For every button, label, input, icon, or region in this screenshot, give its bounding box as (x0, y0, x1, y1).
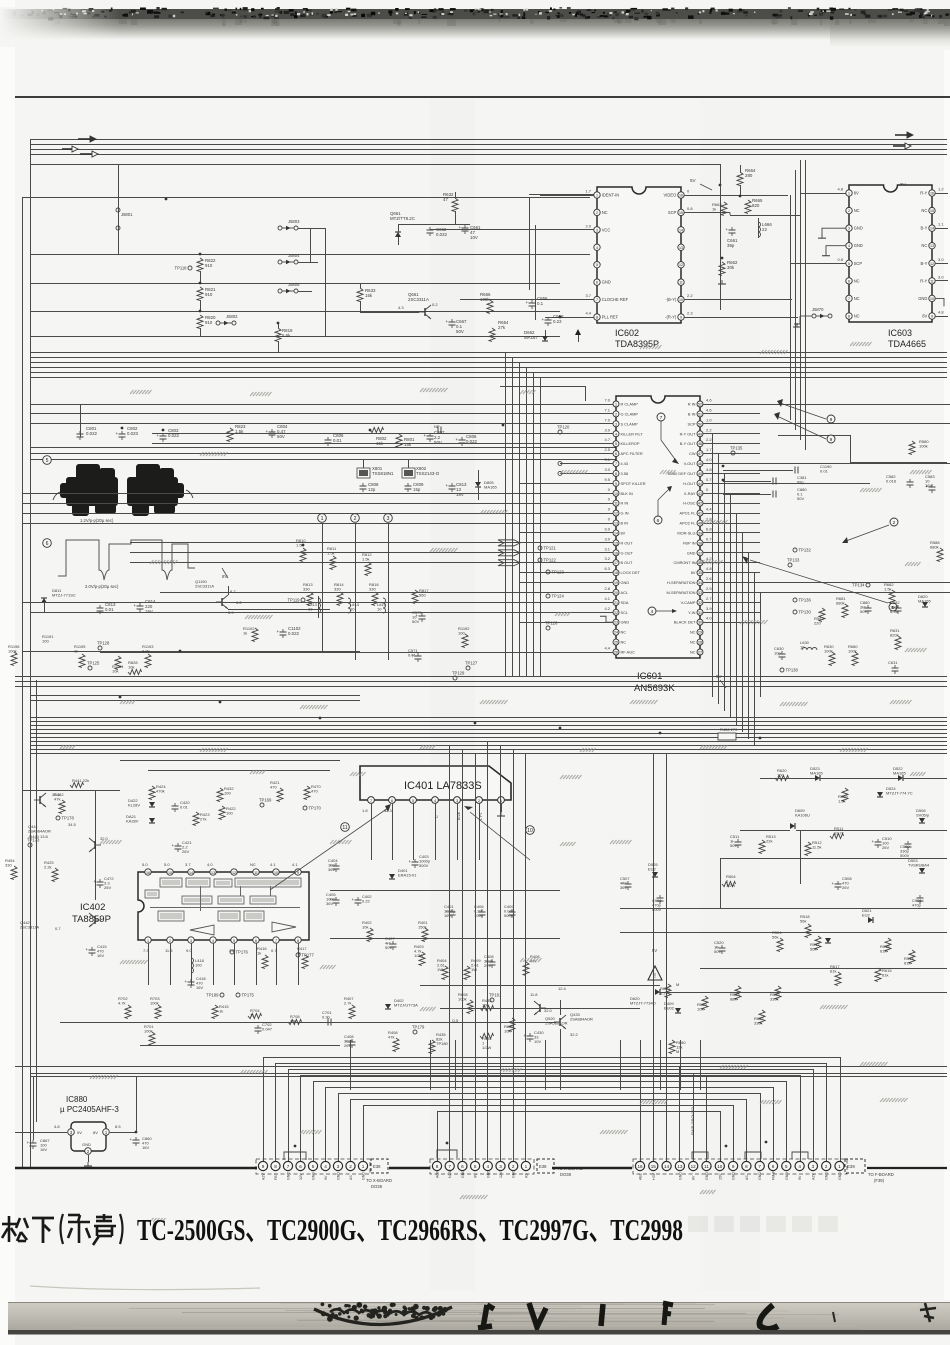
handwriting mark F (663, 1303, 673, 1325)
wire left chain (95, 790, 97, 900)
bus bundle C upper (15, 676, 947, 678)
svg-text:42: 42 (698, 502, 702, 506)
inductor L815 (383, 598, 386, 613)
resistor R633 15k (357, 288, 363, 302)
svg-text:H-OUT: H-OUT (683, 481, 696, 486)
circled node 10 (526, 826, 535, 835)
svg-text:43: 43 (698, 492, 702, 496)
svg-text:7: 7 (448, 1164, 451, 1169)
svg-text:470: 470 (270, 785, 277, 790)
resistor R812 1.5k (365, 562, 371, 576)
inductor L666 22 (758, 218, 760, 238)
resistor R822 910 (199, 253, 202, 256)
left bus vertical (30, 139, 32, 1167)
circled node 2 (351, 514, 360, 523)
svg-text:B-Y OUT: B-Y OUT (680, 441, 696, 446)
svg-text:TVSRUBA4: TVSRUBA4 (908, 863, 930, 868)
svg-text:TP126: TP126 (545, 621, 558, 626)
svg-text:52: 52 (698, 403, 702, 407)
IC402 pin 5 (231, 937, 237, 943)
resistor R703 100k (155, 1005, 161, 1019)
wire stubs (310, 228, 312, 262)
svg-text:5: 5 (412, 799, 414, 803)
resistor R417 1k (302, 955, 308, 969)
svg-text:V-CAMP: V-CAMP (681, 600, 696, 605)
connector row 2 (TO X-BOARD) (432, 1161, 441, 1170)
5V rail label (720, 164, 722, 185)
capacitor C802 0.023 (119, 433, 126, 435)
svg-text:49: 49 (698, 432, 702, 436)
svg-text:2SC3311A: 2SC3311A (20, 925, 39, 930)
crystal X801 TSS818N1 (359, 470, 368, 476)
svg-text:GND: GND (918, 296, 927, 301)
svg-text:ERA15-01: ERA15-01 (398, 873, 417, 878)
svg-text:470p: 470p (912, 903, 922, 908)
test point TP128 (98, 646, 102, 650)
svg-text:M: M (676, 982, 679, 987)
svg-text:TSS818N1: TSS818N1 (372, 471, 394, 476)
svg-text:0.7: 0.7 (706, 477, 712, 482)
svg-text:4.8: 4.8 (706, 467, 712, 472)
IC603 TDA4665 pin 7 (846, 295, 852, 301)
IC601 AN5693K pin 27 (697, 649, 703, 655)
resistor R524 (777, 938, 783, 952)
svg-text:10: 10 (274, 871, 278, 875)
op-amp IC602 TDA8395P pin 8 (594, 314, 600, 320)
svg-text:GND: GND (362, 1172, 366, 1180)
svg-text:GND: GND (512, 1170, 516, 1178)
svg-text:21: 21 (614, 601, 618, 605)
svg-text:500V: 500V (652, 907, 662, 912)
resistor R523 88k (735, 986, 741, 1000)
svg-text:TP178: TP178 (62, 816, 75, 821)
svg-text:1/2W: 1/2W (482, 1045, 492, 1050)
svg-text:L P1: L P1 (479, 812, 483, 820)
IC402 op-amp triangles (190, 925, 214, 935)
svg-text:1: 1 (525, 1164, 528, 1169)
svg-text:14: 14 (664, 1164, 670, 1169)
svg-text:1.5k: 1.5k (296, 543, 304, 548)
capacitor C402 0.22 (355, 899, 362, 901)
svg-text:DO38: DO38 (371, 1184, 383, 1189)
svg-text:NC: NC (854, 208, 860, 213)
diode D505 EU2 (652, 872, 658, 877)
svg-text:5V: 5V (77, 1130, 82, 1135)
IC601 AN5693K pin 49 (697, 431, 703, 437)
svg-text:GND: GND (854, 243, 863, 248)
svg-text:3.0: 3.0 (604, 536, 610, 541)
svg-text:DO38: DO38 (560, 1172, 572, 1177)
capacitor C506 470 26V (835, 883, 842, 885)
IC601 AN5693K pin 31 (697, 609, 703, 615)
svg-text:J5805: J5805 (288, 282, 300, 287)
svg-text:100: 100 (195, 963, 202, 968)
diode D523 MA165 (815, 775, 820, 781)
wires IC603 right pins (935, 193, 948, 195)
resistor R680 100k (852, 652, 858, 666)
IC601 AN5693K pin 37 (697, 550, 703, 556)
svg-text:TP129: TP129 (452, 671, 465, 676)
capacitor C520 10 50V (719, 947, 726, 949)
svg-text:3.7: 3.7 (185, 862, 191, 867)
jumper J5802 (216, 321, 220, 325)
IC402 pin 14 (188, 869, 194, 875)
svg-text:4: 4 (487, 1164, 490, 1169)
circled number 5 (43, 456, 52, 465)
svg-text:EU2: EU2 (862, 913, 871, 918)
IC601 AN5693K pin 21 (613, 599, 619, 605)
bus verticals right of IC601 (712, 434, 714, 697)
IC601 AN5693K pin 35 (697, 570, 703, 576)
svg-text:TC-2500GS、TC2900G、TC2966RS、TC2: TC-2500GS、TC2900G、TC2966RS、TC2997G、TC299… (137, 1213, 683, 1247)
svg-text:9V: 9V (798, 1175, 802, 1180)
svg-text:1W: 1W (437, 967, 443, 972)
svg-text:KILLER FILT: KILLER FILT (621, 431, 644, 436)
svg-text:61k: 61k (880, 949, 886, 954)
svg-text:APO1 FL: APO1 FL (679, 511, 696, 516)
svg-text:11: 11 (679, 281, 683, 285)
junction dots IC602 (559, 316, 562, 319)
handwriting arc scribble (314, 1307, 452, 1325)
svg-text:910: 910 (205, 292, 213, 297)
test point TP177 (296, 953, 300, 957)
svg-text:2.0V/p-p(20µ sec): 2.0V/p-p(20µ sec) (85, 584, 119, 589)
test point TP181 (490, 998, 494, 1002)
svg-text:SCP: SCP (668, 210, 677, 215)
IC601 AN5693K pin 11 (613, 500, 619, 506)
svg-text:100k: 100k (848, 649, 857, 654)
resistor R403 4.7k 1/2W (419, 952, 425, 966)
svg-text:47: 47 (443, 197, 448, 202)
IC601 AN5693K pin 26 (613, 649, 619, 655)
svg-text:E39: E39 (847, 1164, 855, 1169)
svg-text:6.3: 6.3 (604, 566, 610, 571)
svg-text:0.7: 0.7 (55, 926, 61, 931)
svg-text:GND: GND (854, 226, 863, 231)
svg-text:NC: NC (921, 243, 927, 248)
svg-text:C631: C631 (888, 660, 898, 665)
svg-text:1k: 1k (712, 207, 716, 212)
op-amp IC602 TDA8395P pin 13 (678, 244, 684, 250)
capacitor C808 12p (360, 485, 367, 487)
capacitor C409 0.047 500V (509, 911, 516, 913)
ground hook IC601 pin23 (600, 616, 613, 622)
svg-text:15k: 15k (404, 442, 412, 447)
resistor R660 8.2 (665, 984, 671, 998)
svg-text:7: 7 (370, 799, 372, 803)
svg-text:3: 3 (499, 1164, 502, 1169)
capacitor C813b 0.01 (97, 607, 104, 609)
svg-text:+: + (526, 300, 529, 305)
svg-text:1.0: 1.0 (706, 417, 712, 422)
svg-text:25: 25 (614, 641, 618, 645)
svg-text:2SC3311A: 2SC3311A (408, 297, 429, 302)
capacitor C405 1000 36V (333, 899, 340, 901)
svg-text:GND: GND (687, 550, 696, 555)
svg-text:11: 11 (342, 825, 347, 831)
svg-text:4.3: 4.3 (398, 305, 404, 310)
wire node3 (388, 523, 390, 660)
svg-text:100k: 100k (824, 649, 833, 654)
capacitor C415 470 16V (89, 949, 96, 951)
svg-text:680k: 680k (930, 545, 939, 550)
transistor Q442 2SC3311A (94, 916, 96, 924)
svg-text:15: 15 (930, 209, 934, 213)
svg-text:GND: GND (312, 1172, 316, 1180)
op-amp IC602 TDA8395P body (597, 187, 681, 323)
svg-text:TP121: TP121 (544, 546, 557, 551)
svg-text:16: 16 (637, 1164, 643, 1169)
bus bundle C main (30, 695, 360, 697)
svg-text:11: 11 (254, 871, 258, 875)
op-amp IC602 TDA8395P pin 16 (678, 192, 684, 198)
IC601 AN5693K pin 30 (697, 619, 703, 625)
IC402 pin 4 (210, 937, 216, 943)
svg-text:910: 910 (205, 320, 213, 325)
svg-text:1k: 1k (219, 1009, 223, 1014)
svg-text:8.5: 8.5 (115, 1124, 121, 1129)
svg-text:1/2W: 1/2W (726, 883, 736, 888)
IC603 TDA4665 pin 11 (929, 278, 935, 284)
diode D811 MTZJ-771SC (41, 598, 47, 603)
left bus vertical 2 (36, 680, 38, 1122)
svg-text:27: 27 (698, 651, 702, 655)
connector row 3 dashed outline (633, 1159, 847, 1174)
svg-text:EU02: EU02 (664, 1006, 675, 1011)
svg-text:36V: 36V (326, 901, 333, 906)
resistor R1193 3.9k (145, 654, 151, 668)
IC601 AN5693K pin 24 (613, 629, 619, 635)
svg-text:36V: 36V (620, 885, 627, 890)
IC601 AN5693K pin 8 (613, 470, 619, 476)
E38 box row2 (537, 1159, 554, 1173)
svg-text:10p: 10p (774, 651, 781, 656)
svg-text:5: 5 (233, 939, 235, 943)
resistor R423 27k (193, 812, 199, 826)
transistor Q440 (39, 796, 41, 804)
capacitor C404 100 36V (333, 865, 340, 867)
circled node 1 (318, 514, 327, 523)
svg-text:22k: 22k (766, 839, 772, 844)
svg-text:13: 13 (677, 1164, 683, 1169)
svg-text:+: + (116, 431, 119, 436)
resistor R801 15k (396, 434, 402, 448)
svg-text:11: 11 (704, 1164, 709, 1169)
svg-text:BLK IN: BLK IN (621, 491, 634, 496)
svg-text:MA165: MA165 (893, 771, 906, 776)
svg-text:GND: GND (337, 1172, 341, 1180)
warning triangle (648, 966, 662, 980)
svg-text:14: 14 (189, 871, 193, 875)
connector row 1 dashed outline (256, 1159, 370, 1174)
svg-text:0.047: 0.047 (262, 1027, 273, 1032)
svg-text:TP125: TP125 (87, 661, 100, 666)
svg-text:TP180: TP180 (436, 1041, 449, 1046)
IC880 pin 2 (85, 1148, 92, 1155)
svg-text:+: + (446, 483, 449, 488)
IC601 AN5693K pin 32 (697, 599, 703, 605)
svg-text:4.43: 4.43 (621, 461, 629, 466)
svg-text:MA165: MA165 (810, 771, 823, 776)
capacitor C571 0.01 (415, 655, 422, 657)
resistor R819 5.6k (277, 322, 280, 325)
capacitor C507 470 36V (625, 883, 632, 885)
svg-text:11.5k: 11.5k (812, 845, 822, 850)
capacitor C813 13 18V (449, 485, 456, 487)
svg-text:12p: 12p (368, 487, 376, 492)
capacitor C661 47 10V (462, 227, 469, 229)
svg-text:3: 3 (812, 1164, 815, 1169)
svg-text:3.7: 3.7 (585, 293, 591, 298)
op-amp IC602 TDA8395P pin 5 (594, 262, 600, 268)
svg-text:3.1: 3.1 (604, 457, 610, 462)
bus nest verticals left (263, 1057, 265, 1161)
svg-text:2.2: 2.2 (706, 427, 712, 432)
svg-text:12: 12 (930, 262, 934, 266)
svg-text:3.0: 3.0 (604, 467, 610, 472)
IC402 pin 8 (295, 937, 301, 943)
svg-text:330k: 330k (754, 1021, 763, 1026)
svg-text:1: 1 (362, 1164, 365, 1169)
svg-text:SCL: SCL (621, 610, 629, 615)
svg-text:100: 100 (777, 773, 784, 778)
svg-text:IC402: IC402 (80, 902, 105, 913)
IC603 TDA4665 pin 10 (929, 295, 935, 301)
svg-text:8: 8 (848, 315, 850, 319)
svg-text:Y-IN: Y-IN (688, 610, 696, 615)
svg-text:GND: GND (602, 280, 611, 285)
bottom band dark bottom edge (8, 1330, 950, 1335)
IC601 AN5693K pin 52 (697, 401, 703, 407)
svg-text:0.8: 0.8 (837, 257, 843, 262)
svg-text:GND: GND (825, 1172, 829, 1180)
svg-text:GND: GND (678, 1172, 682, 1180)
title CJK Panasonic (drawn strokes) (2, 1216, 28, 1242)
svg-text:TP124: TP124 (552, 594, 565, 599)
bottom band streaks (479, 1313, 746, 1315)
IC880 wires (15, 1132, 67, 1134)
capacitor C667 0.1 50V (449, 321, 456, 323)
svg-text:5.0: 5.0 (142, 862, 148, 867)
svg-text:4: 4 (324, 1164, 327, 1169)
resistor R583 220 (819, 608, 825, 622)
svg-text:3.1: 3.1 (604, 546, 610, 551)
test point TP179 (56, 816, 60, 820)
transistor Q441 area wires (22, 790, 120, 792)
svg-text:TP118: TP118 (174, 266, 187, 271)
capacitor C631 (892, 667, 899, 669)
IC601 AN5693K pin 43 (697, 490, 703, 496)
svg-text:1.5k: 1.5k (884, 587, 892, 592)
svg-text:MA165: MA165 (918, 599, 931, 604)
svg-text:TP133: TP133 (787, 558, 800, 563)
svg-text:16V: 16V (142, 1145, 149, 1150)
resistor R402 10k (367, 928, 373, 942)
svg-text:12V: 12V (499, 1171, 503, 1178)
diode D503 TVSRUSA4 (919, 868, 925, 873)
svg-text:10: 10 (717, 1164, 723, 1169)
svg-text:4.8: 4.8 (54, 1124, 60, 1129)
capacitor C407 4.7 50V (390, 943, 397, 945)
svg-text:23: 23 (614, 621, 618, 625)
resistor R517 56k (815, 936, 821, 950)
resistor R629 (702, 996, 708, 1010)
resistor R665 820 (745, 200, 751, 214)
capacitor C806 0.01 (325, 439, 332, 441)
svg-text:4.0: 4.0 (207, 862, 213, 867)
svg-text:8: 8 (615, 472, 617, 476)
svg-text:7: 7 (596, 298, 598, 302)
svg-text:2.6: 2.6 (706, 576, 712, 581)
svg-text:7: 7 (287, 1164, 290, 1169)
svg-text:7: 7 (660, 415, 663, 421)
svg-text:8.2: 8.2 (660, 991, 666, 996)
test point TP169 (260, 803, 264, 807)
bus arrow left 2 (62, 148, 72, 150)
junction (165, 198, 168, 201)
circled number 6 (43, 539, 52, 548)
svg-text:820k: 820k (890, 633, 899, 638)
resistor R622 330k (759, 1010, 765, 1024)
inductor L813 (318, 596, 320, 618)
resistor R425 2.2k (52, 868, 58, 882)
wire cap row bus (80, 404, 950, 406)
svg-text:35: 35 (698, 571, 702, 575)
svg-text:+: + (456, 437, 459, 442)
svg-text:1.8k: 1.8k (838, 799, 846, 804)
svg-text:10: 10 (350, 607, 355, 612)
svg-text:1: 1 (147, 939, 149, 943)
wire corner into IC601 pin1 (500, 386, 585, 388)
svg-text:0.022: 0.022 (86, 431, 98, 436)
svg-text:9: 9 (931, 315, 933, 319)
svg-text:330: 330 (5, 863, 12, 868)
resistor R522 330k (775, 986, 781, 1000)
svg-text:FM-IN: FM-IN (772, 1170, 776, 1180)
capacitor C1102 0.022 (280, 631, 287, 633)
svg-text:SV05/p: SV05/p (916, 813, 930, 818)
svg-text:4.2: 4.2 (604, 606, 610, 611)
top scan band dark core (0, 9, 950, 19)
svg-text:1: 1 (321, 516, 324, 522)
svg-text:NC: NC (602, 210, 608, 215)
diode D520 MTZJT-7734O (655, 989, 660, 995)
IC601 inner arrows (657, 413, 665, 421)
svg-text:+: + (172, 843, 175, 848)
svg-text:R IN: R IN (688, 402, 696, 407)
test point TP138 (780, 668, 784, 672)
svg-text:CW: CW (689, 451, 696, 456)
svg-text:39: 39 (698, 531, 702, 535)
transistor Q520 2SA5861OR (539, 1004, 541, 1012)
handwriting small mark (833, 1312, 835, 1322)
inductor L630 10 (802, 648, 817, 651)
svg-text:10k: 10k (697, 1007, 703, 1012)
svg-text:100: 100 (224, 791, 231, 796)
svg-text:GND: GND (461, 1170, 465, 1178)
capacitor C661 39p (729, 229, 736, 231)
bus verticals near IC603 (790, 195, 792, 420)
IC601 AN5693K pin 19 (613, 580, 619, 586)
svg-text:9: 9 (830, 437, 833, 443)
IC601 AN5693K pin 44 (697, 480, 703, 486)
svg-text:LOCK DET: LOCK DET (621, 570, 641, 575)
IC601 AN5693K pin 29 (697, 629, 703, 635)
svg-text:TP123: TP123 (552, 570, 565, 575)
wire M-SEP (703, 592, 950, 594)
crystal X802 TSS2143-O (404, 470, 413, 476)
svg-text:11: 11 (614, 502, 618, 506)
